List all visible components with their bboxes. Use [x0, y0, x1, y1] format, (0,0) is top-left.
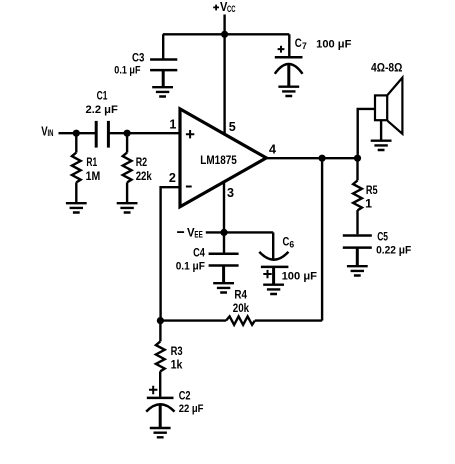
svg-text:20k: 20k: [233, 301, 249, 315]
svg-text:100 μF: 100 μF: [282, 270, 318, 282]
svg-text:R5: R5: [366, 183, 378, 197]
svg-text:C: C: [295, 36, 302, 50]
svg-text:5: 5: [229, 120, 236, 134]
svg-text:0.1 μF: 0.1 μF: [114, 65, 140, 77]
svg-text:4Ω-8Ω: 4Ω-8Ω: [371, 60, 403, 74]
svg-text:LM1875: LM1875: [200, 153, 237, 167]
svg-text:R1: R1: [86, 155, 97, 169]
svg-text:R2: R2: [136, 155, 147, 169]
svg-text:C: C: [283, 234, 290, 248]
svg-text:R3: R3: [171, 344, 183, 358]
svg-text:7: 7: [302, 41, 307, 51]
svg-text:IN: IN: [48, 128, 54, 138]
svg-text:C2: C2: [179, 389, 191, 403]
svg-text:C1: C1: [97, 89, 108, 103]
svg-text:EE: EE: [194, 229, 202, 239]
svg-text:C4: C4: [193, 245, 205, 259]
svg-text:1: 1: [169, 118, 176, 132]
svg-text:2.2 μF: 2.2 μF: [86, 104, 119, 116]
svg-text:22k: 22k: [136, 169, 152, 183]
svg-text:6: 6: [289, 239, 294, 249]
svg-text:2: 2: [169, 171, 176, 185]
svg-text:1: 1: [365, 197, 372, 211]
svg-text:1k: 1k: [171, 358, 183, 372]
svg-text:CC: CC: [227, 4, 236, 14]
svg-text:3: 3: [227, 186, 234, 200]
svg-text:1M: 1M: [86, 169, 101, 183]
svg-text:R4: R4: [234, 287, 247, 301]
svg-text:100 μF: 100 μF: [316, 39, 351, 51]
svg-text:C3: C3: [132, 50, 144, 64]
svg-text:C5: C5: [377, 229, 388, 243]
svg-text:22 μF: 22 μF: [179, 403, 204, 415]
svg-text:0.1 μF: 0.1 μF: [176, 261, 205, 273]
svg-text:4: 4: [269, 142, 276, 156]
svg-text:0.22 μF: 0.22 μF: [376, 244, 411, 256]
